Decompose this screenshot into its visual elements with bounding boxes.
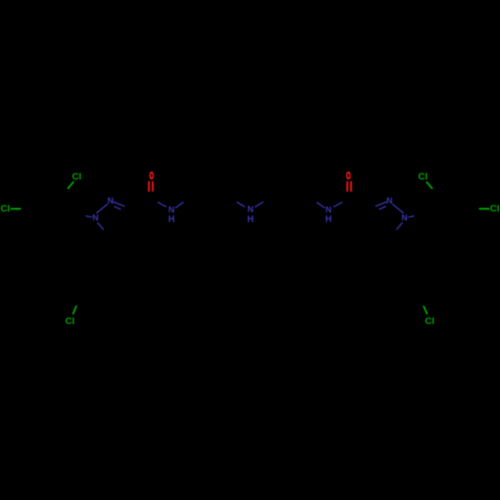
bond N-C(=O) half (right amide)	[333, 202, 342, 207]
bond N2=C3 outer line half (right pyrazole)	[376, 202, 386, 206]
bond N-CH2 half (left amide)	[176, 202, 184, 207]
bond C=O right line half (left carbonyl)	[152, 181, 154, 191]
bond N-C(=O) half (left amide)	[158, 202, 167, 207]
svg-text:H: H	[247, 214, 254, 224]
bond N1-phenyl half (left)	[86, 216, 91, 217]
bond N-CH2 left half (central amine)	[237, 202, 244, 206]
svg-text:Cl: Cl	[65, 316, 75, 327]
bond N1-C5 half (left pyrazole)	[98, 223, 103, 229]
bond N-CH2 right half (central amine)	[256, 202, 263, 206]
svg-text:N: N	[325, 205, 331, 215]
bond C-Cl half (left bottom)	[73, 306, 76, 313]
bond N2=C3 inner line half (left pyrazole)	[115, 207, 122, 210]
bond C4-Cl half (right 4-position)	[480, 208, 489, 210]
svg-text:O: O	[346, 171, 351, 182]
bond N1-phenyl half (right)	[409, 216, 414, 217]
svg-text:H: H	[168, 214, 175, 224]
bond C=O right line half (right carbonyl)	[350, 181, 352, 191]
bond C=O left line half (right carbonyl)	[346, 181, 348, 191]
svg-text:N: N	[107, 196, 113, 206]
bond C4-Cl half (left 4-position)	[11, 208, 20, 210]
svg-text:N: N	[401, 213, 407, 223]
svg-text:Cl: Cl	[425, 316, 435, 327]
svg-text:N: N	[168, 205, 174, 215]
svg-text:H: H	[325, 214, 332, 224]
bond N2=C3 inner line half (right pyrazole)	[379, 207, 386, 210]
svg-text:N: N	[92, 213, 98, 223]
bond N2=C3 outer line half (left pyrazole)	[114, 202, 124, 206]
svg-text:Cl: Cl	[0, 203, 10, 214]
bond C=O left line half (left carbonyl)	[148, 181, 150, 191]
svg-text:Cl: Cl	[490, 203, 500, 214]
bond N-CH2 half (right amide)	[317, 202, 325, 207]
bond N1-N2 (right pyrazole)	[393, 204, 403, 213]
svg-text:N: N	[386, 196, 392, 206]
bond C-Cl half (right bottom)	[424, 306, 427, 313]
bond N1-C5 half (right pyrazole)	[397, 223, 402, 229]
svg-text:Cl: Cl	[418, 171, 428, 182]
bond C2-Cl half (right 2-position)	[427, 182, 432, 188]
svg-text:N: N	[247, 204, 253, 214]
bond C2-Cl half (left 2-position)	[68, 182, 73, 188]
svg-text:O: O	[149, 171, 154, 182]
bond N1-N2 (left pyrazole)	[97, 204, 107, 213]
svg-text:Cl: Cl	[72, 171, 82, 182]
